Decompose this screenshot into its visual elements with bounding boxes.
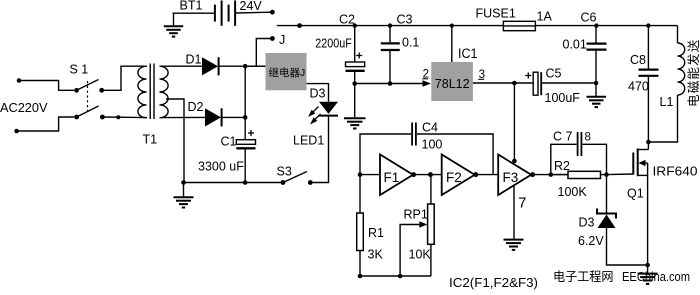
svg-text:100K: 100K: [558, 185, 588, 199]
inverter F3: [498, 155, 531, 196]
svg-text:D3: D3: [579, 216, 595, 230]
svg-text:R1: R1: [368, 226, 384, 240]
diode D1: [202, 57, 219, 75]
svg-text:10K: 10K: [409, 248, 432, 262]
junction R2 left: [549, 172, 554, 177]
wire C5 to C6/ground node: [541, 82, 596, 84]
svg-text:C8: C8: [630, 53, 646, 67]
potentiometer RP1: [428, 175, 435, 276]
junction C2/pin2: [352, 81, 357, 86]
wire bus to C3: [389, 26, 391, 43]
pin 2 arrowhead: [423, 80, 432, 87]
svg-text:EEChina.com: EEChina.com: [622, 270, 690, 284]
svg-text:100uF: 100uF: [545, 91, 581, 105]
wire S1 to transformer primary bottom: [102, 116, 147, 119]
junction pin3/IC2 supply: [512, 81, 517, 86]
wire C6 to node: [595, 51, 597, 83]
svg-text:D1: D1: [186, 53, 202, 67]
ground rail wire: [184, 182, 284, 184]
switch S1 pole A: [74, 80, 104, 93]
svg-text:3300 uF: 3300 uF: [198, 160, 244, 174]
transformer T1 core: [149, 64, 151, 120]
svg-text:FUSE1: FUSE1: [476, 7, 516, 21]
junction RP1 top: [428, 172, 433, 177]
junction C8/L1/drain: [646, 140, 651, 145]
resistor R2: [551, 171, 607, 178]
svg-text:D3: D3: [310, 87, 326, 101]
svg-text:电磁能发送: 电磁能发送: [686, 38, 700, 107]
C2 plus sign: [356, 53, 362, 59]
C1 plus sign: [248, 130, 254, 136]
junction F1 input: [358, 172, 363, 177]
capacitor C3: [381, 43, 400, 50]
wire relay box to LED anode: [307, 84, 329, 102]
zener diode D3: [597, 209, 616, 229]
svg-text:F1: F1: [384, 170, 400, 185]
wire main bus: [277, 25, 678, 27]
wire C4 feedback left: [360, 134, 411, 175]
junction R1 bottom: [358, 274, 363, 279]
junction C3 bottom: [388, 81, 393, 86]
svg-text:C3: C3: [397, 13, 413, 27]
svg-text:100: 100: [422, 138, 443, 152]
svg-text:7: 7: [518, 196, 526, 212]
ground (C2): [344, 118, 366, 128]
svg-text:T1: T1: [143, 133, 158, 147]
ground (C5/C6): [587, 83, 607, 107]
svg-text:C5: C5: [546, 67, 562, 81]
junction C5/C6/ground: [594, 81, 599, 86]
battery BT1 plates: [215, 1, 235, 26]
switch S1 pole B: [74, 106, 105, 119]
capacitor C2 electrolytic: [346, 62, 365, 71]
svg-text:AC220V: AC220V: [0, 100, 48, 115]
pin 7 wire: [513, 186, 515, 239]
svg-text:IRF640: IRF640: [653, 165, 698, 179]
junction F1 output: [411, 172, 416, 177]
wire gate: [607, 173, 634, 176]
ground (IC2 pin7): [504, 240, 524, 250]
svg-text:电子工程网: 电子工程网: [553, 269, 614, 284]
switch S3: [281, 172, 313, 185]
ground (battery): [164, 13, 183, 36]
svg-text:C 7: C 7: [553, 130, 573, 144]
LED emission arrows: [310, 107, 321, 124]
svg-text:C2: C2: [339, 13, 355, 27]
svg-text:78L12: 78L12: [435, 77, 470, 91]
secondary bottom tap wire to D2: [161, 116, 205, 118]
svg-text:S3: S3: [277, 165, 292, 179]
wire bus to C8: [647, 26, 649, 69]
wire S1 to transformer primary top: [102, 66, 147, 90]
svg-text:J: J: [279, 33, 285, 47]
AC top terminal: [17, 78, 22, 83]
relay coil box: [266, 53, 307, 90]
svg-text:1A: 1A: [537, 10, 553, 24]
svg-text:Q1: Q1: [627, 187, 644, 201]
inverter F2: [442, 155, 475, 196]
capacitor C1 electrolytic: [236, 140, 255, 149]
capacitor C7: [578, 132, 582, 156]
svg-text:继电器J: 继电器J: [269, 66, 306, 79]
svg-text:LED1: LED1: [293, 134, 324, 148]
wire bus to C2: [354, 26, 356, 62]
svg-text:C1: C1: [221, 135, 237, 149]
wire pin 3: [473, 82, 533, 84]
capacitor C6: [587, 44, 607, 50]
wire bus to IC1 top: [451, 26, 453, 62]
RP1 wiper: [400, 221, 427, 276]
svg-text:F2: F2: [446, 170, 462, 185]
capacitor C4: [412, 123, 416, 146]
relay contact battery-side dot: [270, 10, 275, 15]
wire C8 to drain node: [647, 77, 649, 142]
svg-text:IC1: IC1: [458, 46, 478, 61]
bus junction dots: [297, 23, 302, 28]
wire zener to source rail: [607, 228, 648, 265]
resistor R1: [357, 175, 364, 276]
svg-text:C6: C6: [581, 11, 597, 25]
junction F3 output: [530, 172, 535, 177]
MOSFET Q1: [633, 142, 648, 176]
capacitor C5 electrolytic: [533, 72, 541, 95]
C5 plus sign: [525, 73, 531, 79]
junction source/ground: [645, 263, 650, 268]
wire F1 out to F2: [413, 174, 442, 176]
wire D1 to relay node: [219, 65, 266, 67]
svg-text:IC2(F1,F2&F3): IC2(F1,F2&F3): [449, 275, 538, 290]
junction F2 output: [473, 172, 478, 177]
wire C3 to pin2 line: [389, 51, 391, 84]
inductor L1: [648, 26, 684, 142]
wire D2 node down to C1: [244, 117, 246, 139]
wire D1 node to relay box: [245, 65, 265, 67]
AC bottom terminal: [14, 129, 19, 134]
junction on primary bottom wire: [116, 115, 120, 119]
relay contact J-side dot: [270, 36, 275, 41]
svg-text:2200uF: 2200uF: [315, 37, 352, 51]
LED D3 diode: [319, 102, 338, 116]
wire C4 feedback right: [417, 134, 493, 175]
wire J to relay coil: [256, 39, 272, 67]
wire D1 node down to D2 node: [244, 66, 246, 117]
oscillator bottom wire: [360, 275, 431, 277]
wire F2 out to F3: [475, 174, 499, 176]
C7 right wire: [583, 144, 607, 174]
junction node D2 out: [243, 115, 248, 120]
ground (Q1 source): [638, 265, 658, 284]
svg-text:S 1: S 1: [70, 63, 89, 77]
fuse FUSE1: [503, 21, 535, 30]
diode D2: [205, 108, 222, 126]
svg-text:0.01: 0.01: [563, 38, 587, 52]
transformer T1 secondary winding: [160, 66, 169, 118]
svg-text:L1: L1: [660, 95, 674, 109]
secondary top tap wire to D1: [161, 65, 202, 67]
svg-text:R2: R2: [554, 159, 570, 173]
svg-text:8: 8: [585, 132, 591, 144]
junction R2 right / gate: [604, 172, 609, 177]
svg-text:3K: 3K: [368, 248, 384, 262]
svg-text:D2: D2: [188, 100, 204, 114]
transformer T1 primary winding: [138, 66, 147, 118]
wire gate node to zener: [606, 175, 608, 214]
wire F3 out to R2: [531, 174, 568, 176]
svg-text:RP1: RP1: [404, 208, 428, 222]
wire pin 2: [355, 83, 424, 85]
C7 parallel loop: [551, 144, 577, 174]
wire bus to C6: [595, 26, 597, 43]
wire C1 to ground rail: [244, 150, 246, 183]
secondary center tap wire: [166, 99, 184, 183]
wire: [19, 81, 74, 91]
S1 gang dashed link: [87, 81, 89, 114]
wire D2 to node: [222, 116, 246, 118]
inverter F1: [380, 155, 413, 196]
svg-text:470: 470: [628, 80, 649, 94]
junction wiper bottom: [398, 274, 403, 279]
junction node D1 out: [243, 64, 248, 69]
junction center tap: [181, 180, 186, 185]
svg-text:F3: F3: [503, 170, 519, 185]
svg-text:C4: C4: [422, 121, 438, 135]
ground (transformer rail): [174, 183, 194, 208]
wire C2 down to ground: [354, 72, 356, 117]
wire IC2 supply drop: [513, 83, 515, 161]
IC1 box: [431, 62, 473, 101]
wire Q1 source down: [647, 175, 649, 265]
wire: [17, 117, 74, 131]
wire battery to relay contact: [235, 11, 270, 14]
svg-text:0.1: 0.1: [402, 36, 419, 50]
supply pin dot on F3: [512, 159, 517, 164]
svg-text:24V: 24V: [240, 0, 263, 13]
capacitor C8: [639, 70, 659, 76]
wire LED cathode down to S3: [310, 116, 328, 183]
junction C1 bottom: [243, 180, 248, 185]
wire F1 input stub: [360, 174, 380, 176]
wire ground to battery: [173, 12, 215, 14]
svg-text:BT1: BT1: [180, 0, 203, 13]
svg-text:6.2V: 6.2V: [578, 234, 604, 248]
